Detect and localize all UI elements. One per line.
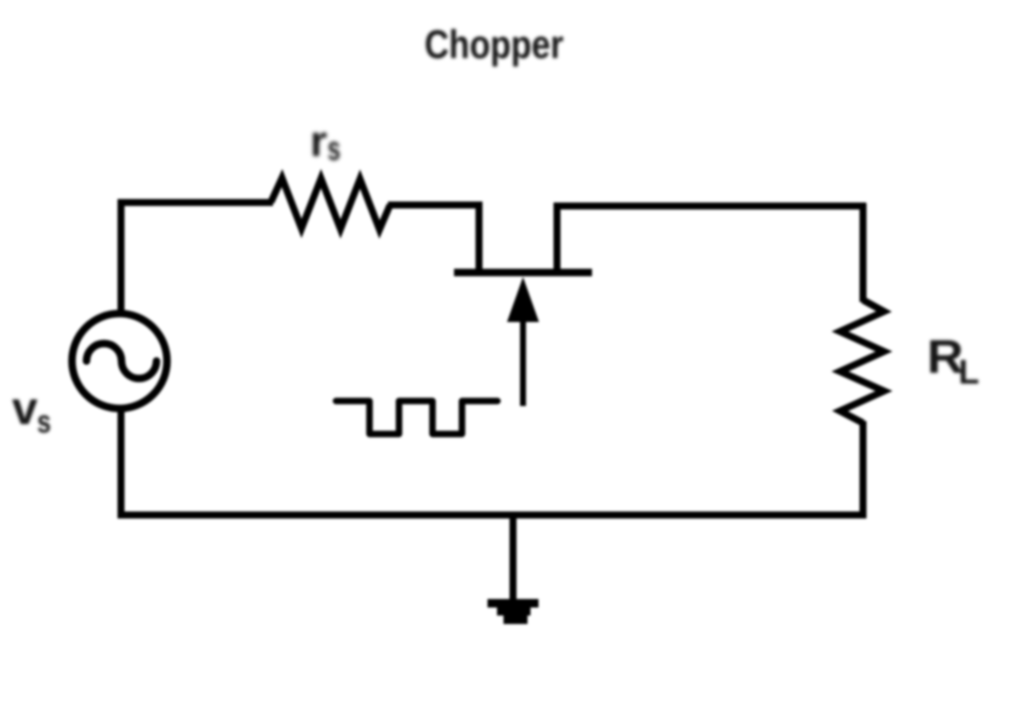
voltage source Vs	[72, 314, 167, 409]
svg-text:r: r	[310, 117, 327, 166]
transistor Q1 chopper FET: channel bar	[454, 269, 592, 277]
svg-text:s: s	[328, 130, 341, 168]
label RL	[927, 331, 979, 392]
square wave gate signal	[336, 401, 498, 434]
wire: RL top vertical	[860, 203, 867, 302]
gate drive arrow	[507, 277, 539, 406]
svg-text:Chopper: Chopper	[425, 23, 564, 67]
ground	[488, 515, 539, 624]
svg-text:s: s	[37, 404, 51, 440]
wire: Vs bottom vertical	[118, 406, 125, 519]
wire: RL bottom vertical	[860, 421, 867, 519]
resistor rs	[271, 178, 390, 230]
resistor RL	[840, 300, 884, 423]
wire: resistor to drain, down to FET channel	[388, 205, 479, 270]
wire: FET source up and right to RL	[557, 206, 866, 270]
svg-text:v: v	[12, 382, 38, 434]
label rs	[310, 117, 341, 168]
wire: bottom horizontal	[118, 512, 866, 519]
svg-text:L: L	[959, 354, 980, 392]
wire: left vertical + top-left horizontal	[121, 203, 273, 317]
label vs	[12, 382, 51, 440]
